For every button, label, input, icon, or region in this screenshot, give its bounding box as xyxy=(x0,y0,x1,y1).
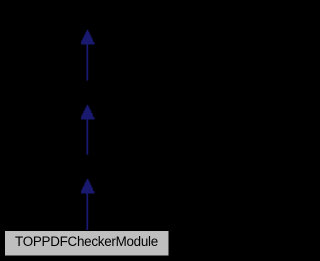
inheritance arrow 1 (top) xyxy=(81,30,95,81)
inheritance arrow 3 (bottom) xyxy=(81,179,95,231)
node TOPPDFCheckerModule box xyxy=(5,231,170,257)
svg-text:TOPPDFCheckerModule: TOPPDFCheckerModule xyxy=(15,234,158,249)
inheritance arrow 2 (middle) xyxy=(81,105,95,155)
